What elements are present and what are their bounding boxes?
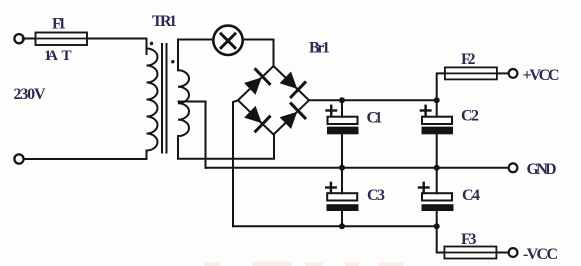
faint cropped caption remnant bbox=[204, 262, 404, 266]
node GND rail bbox=[206, 167, 509, 169]
capacitor C3 bbox=[327, 193, 357, 200]
svg-text:F1: F1 bbox=[52, 16, 66, 33]
svg-text:Br1: Br1 bbox=[309, 40, 330, 57]
transformer TR1 primary winding bbox=[147, 49, 158, 151]
terminal AC input N bbox=[14, 154, 23, 163]
svg-text:GND: GND bbox=[527, 161, 557, 178]
capacitor C3 plus sign bbox=[326, 186, 336, 188]
wire F3 to -VCC terminal bbox=[496, 252, 508, 254]
polarity dot secondary bbox=[171, 60, 174, 63]
capacitor C4 plus sign bbox=[419, 186, 429, 188]
node plus rail bbox=[309, 99, 437, 101]
svg-text:+VCC: +VCC bbox=[523, 67, 560, 84]
junction C2-C4 bbox=[434, 165, 440, 171]
capacitor C3 lead top bbox=[341, 168, 343, 193]
svg-text:T: T bbox=[62, 48, 72, 64]
capacitor C1 lead bottom bbox=[341, 134, 343, 168]
capacitor C2 lead top bbox=[436, 100, 438, 116]
fuse F3 bbox=[444, 247, 496, 259]
wire plus rail to fuse F2 bbox=[437, 73, 445, 100]
capacitor C4 lead bottom bbox=[436, 211, 438, 226]
wire bridge minus vertex down bbox=[233, 100, 238, 226]
capacitor C2 bbox=[422, 117, 452, 124]
wire terminal to fuse F1 bbox=[23, 38, 35, 40]
wire secondary top to lamp bbox=[178, 40, 213, 71]
bridge diode D4 bottom-right bbox=[280, 112, 298, 129]
wire fuse F1 to transformer primary bbox=[87, 39, 147, 55]
capacitor C3 lead bottom bbox=[341, 211, 343, 226]
terminal GND bbox=[509, 163, 518, 172]
junction C2 top bbox=[434, 97, 440, 103]
junction C1-C3 bbox=[339, 165, 345, 171]
bridge diode D2 top-right bbox=[280, 72, 298, 89]
svg-text:C2: C2 bbox=[461, 108, 479, 125]
polarity dot primary bbox=[150, 42, 153, 45]
junction C4 bottom bbox=[434, 223, 440, 229]
svg-text:-VCC: -VCC bbox=[523, 246, 558, 263]
terminal AC input L bbox=[14, 34, 23, 43]
lamp X1 bbox=[213, 26, 242, 55]
svg-text:230V: 230V bbox=[14, 86, 46, 103]
terminal +VCC bbox=[509, 69, 518, 78]
wire F2 to +VCC terminal bbox=[497, 72, 509, 74]
transformer core bbox=[161, 44, 163, 153]
transformer TR1 secondary winding bbox=[178, 70, 189, 136]
bridge rectifier Br1 frame bbox=[238, 66, 309, 135]
junction C3 bottom bbox=[339, 223, 345, 229]
svg-text:C1: C1 bbox=[367, 110, 383, 127]
svg-text:1A: 1A bbox=[44, 48, 58, 64]
capacitor C1 plus sign bbox=[327, 109, 337, 111]
capacitor C2 plus sign bbox=[421, 109, 431, 111]
fuse F2 bbox=[445, 67, 497, 79]
capacitor C1 lead top bbox=[341, 100, 343, 116]
node minus rail bbox=[233, 225, 437, 227]
fuse F1 bbox=[36, 33, 88, 46]
bridge diode D1 top-left bbox=[244, 77, 262, 94]
capacitor C2 lead bottom bbox=[436, 134, 438, 168]
svg-text:TR1: TR1 bbox=[152, 13, 177, 30]
bridge diode D3 bottom-left bbox=[244, 106, 262, 123]
junction C1 top bbox=[339, 97, 345, 103]
wire primary bottom to terminal bbox=[24, 151, 147, 160]
svg-text:C4: C4 bbox=[462, 187, 480, 204]
capacitor C4 bbox=[422, 193, 452, 200]
capacitor C4 lead top bbox=[436, 168, 438, 193]
wire lamp to bridge top vertex bbox=[243, 40, 274, 67]
terminal -VCC bbox=[509, 248, 518, 257]
wire secondary bottom to bridge bottom vertex bbox=[178, 135, 274, 159]
wire secondary center tap bbox=[179, 102, 206, 168]
svg-text:F2: F2 bbox=[461, 51, 476, 68]
capacitor C1 bbox=[328, 117, 358, 124]
svg-text:F3: F3 bbox=[461, 231, 477, 248]
svg-text:C3: C3 bbox=[367, 187, 385, 204]
wire minus rail to fuse F3 bbox=[437, 226, 445, 252]
